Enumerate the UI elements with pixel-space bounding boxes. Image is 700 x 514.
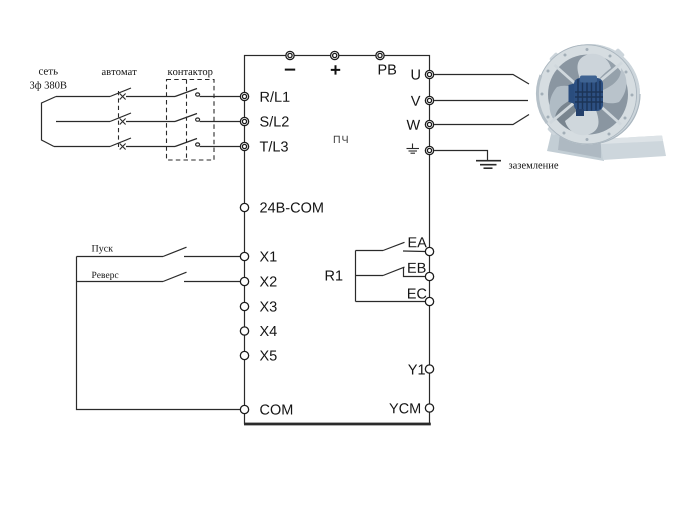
contactor pole1 — [175, 89, 240, 97]
terminal PB — [376, 51, 384, 59]
terminal PE — [425, 146, 433, 154]
relay R1 contact EA — [356, 242, 426, 251]
label 24B-COM — [260, 202, 323, 212]
label X1 — [260, 252, 277, 262]
label plus — [331, 65, 340, 74]
wire PE ground — [434, 151, 487, 161]
inverter box ПЧ — [245, 56, 430, 424]
contactor link line (dashed) — [186, 80, 188, 161]
fan (axial fan photo) — [537, 44, 666, 161]
fan blades — [550, 54, 627, 135]
terminal X5 — [240, 351, 248, 359]
terminal 24B-COM — [240, 203, 248, 211]
label EB — [408, 263, 425, 273]
fan inner opening — [548, 55, 628, 135]
terminal - (minus) — [286, 51, 294, 59]
label COM — [260, 404, 292, 414]
relay R1 contact EB — [356, 267, 426, 276]
label Пуск — [92, 245, 113, 254]
fan motor — [569, 76, 604, 117]
label YCM — [389, 403, 420, 413]
wire common return left — [77, 257, 241, 410]
ground terminal symbol inside box — [407, 144, 420, 154]
wire start switch to X1 — [77, 247, 241, 256]
terminal Y1 — [425, 365, 433, 373]
label X5 — [260, 351, 277, 361]
terminal X4 — [240, 327, 248, 335]
fan casing body — [587, 44, 640, 144]
terminal S/L2 — [240, 117, 248, 125]
terminal EA — [425, 247, 433, 255]
fan base mount — [547, 130, 604, 161]
ground earth symbol — [476, 161, 501, 169]
wire phase3 to breaker — [54, 146, 110, 148]
terminal R/L1 — [240, 92, 248, 100]
terminal YCM — [425, 404, 433, 412]
terminal T/L3 — [240, 142, 248, 150]
terminal X3 — [240, 302, 248, 310]
terminal EB — [425, 272, 433, 280]
terminal W — [425, 120, 433, 128]
terminal X1 — [240, 252, 248, 260]
label сеть — [39, 69, 58, 74]
wire EC — [356, 301, 426, 303]
label PB — [379, 65, 396, 75]
wire V to fan — [434, 100, 528, 102]
label автомат — [102, 70, 137, 75]
terminal + (plus) — [331, 51, 339, 59]
fan front rim ring — [537, 44, 637, 144]
label EC — [408, 288, 426, 298]
node source bracket сеть — [42, 97, 57, 147]
terminal COM — [240, 405, 248, 413]
label Реверс — [92, 272, 119, 280]
label X3 — [260, 301, 277, 311]
wire reverse switch to X2 — [77, 272, 241, 281]
label 3ф 380В — [30, 81, 66, 91]
breaker QF pole1 — [110, 88, 175, 100]
wire phase1 to breaker — [56, 96, 110, 98]
label T/L3 — [260, 141, 288, 152]
label V — [411, 96, 421, 106]
terminal V — [425, 96, 433, 104]
label EA — [409, 237, 427, 247]
label W — [407, 120, 421, 130]
wire U to fan — [434, 75, 529, 85]
fan flange tabs — [547, 48, 625, 136]
contactor KM box (dashed) — [167, 80, 215, 161]
fan rim bolts — [541, 48, 634, 141]
label U — [412, 70, 420, 80]
label S/L2 — [260, 116, 288, 127]
wire phase2 to breaker — [56, 121, 110, 123]
terminal EC — [425, 297, 433, 305]
inverter box bottom thick edge — [244, 423, 431, 426]
breaker QF pole2 — [110, 113, 175, 125]
label ПЧ — [334, 136, 348, 143]
label R1 — [326, 271, 343, 281]
wire W to fan — [434, 115, 529, 125]
terminal X2 — [240, 277, 248, 285]
contactor pole3 — [175, 139, 240, 147]
breaker QF pole3 — [110, 138, 175, 150]
breaker trip link (dashed) — [118, 91, 120, 150]
label X4 — [260, 326, 277, 336]
relay R1 bus — [355, 251, 357, 302]
label X2 — [260, 276, 277, 286]
label R/L1 — [261, 91, 290, 102]
label контактор — [168, 70, 213, 77]
fan casing back rim — [540, 44, 640, 144]
fan struts — [550, 63, 622, 125]
label minus — [285, 69, 295, 71]
contactor pole2 — [175, 114, 240, 122]
label заземление — [509, 164, 558, 169]
label Y1 — [408, 365, 425, 375]
terminal U — [425, 70, 433, 78]
